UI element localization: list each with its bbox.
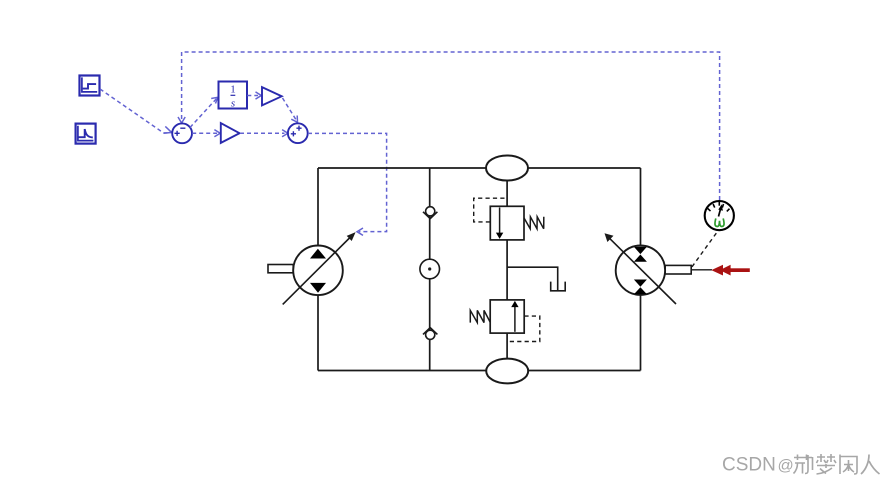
relief valve RV1 (top): [474, 198, 544, 240]
wire: step to sum1: [100, 89, 172, 133]
RV2 spring: [470, 310, 490, 322]
wire: bottom line: [318, 370, 641, 372]
tank T1: [551, 282, 566, 291]
svg-text:CSDN: CSDN: [722, 455, 776, 476]
wire: right branch: [640, 168, 642, 371]
svg-text:1: 1: [230, 84, 236, 96]
svg-text:s: s: [231, 98, 235, 110]
svg-text:@: @: [778, 458, 794, 475]
watermark glyph: xian: [840, 455, 857, 475]
gain block K1: [262, 87, 282, 105]
integrator block 1/s: [219, 82, 248, 110]
wire: relief valve branch: [506, 180, 508, 360]
node: top port ellipse: [486, 156, 528, 181]
gauge needle: [719, 208, 721, 217]
motor flow triangles: [634, 247, 647, 254]
tachometer W1: [705, 201, 734, 230]
pump P1 (variable displacement): [268, 232, 356, 304]
wire: junction to tank: [507, 267, 558, 290]
motor shaft: [665, 265, 691, 274]
sum junction 2: [288, 123, 308, 143]
sum junction 1: [172, 123, 192, 143]
wire: gain1 to sum2: [283, 98, 298, 122]
node: bottom port ellipse: [486, 359, 528, 384]
RV1 pilot line: [474, 198, 506, 222]
motor M1 (variable displacement): [605, 233, 692, 304]
wire: sum1 to integrator: [190, 97, 218, 127]
wire: motor shaft stub: [691, 269, 712, 271]
label: omega: [715, 218, 724, 226]
watermark glyph: ren: [861, 455, 880, 475]
watermark glyph: chu: [817, 454, 837, 474]
wire: sum1 to gain2: [192, 130, 220, 137]
RV2 flow arrow: [514, 307, 516, 332]
gauge tick marks: [708, 201, 730, 211]
pump variable-displacement arrow: [283, 237, 351, 304]
label: 1/s: [231, 94, 236, 96]
RV1 spring: [524, 217, 544, 229]
wire: gain2 to sum2: [240, 130, 288, 137]
red torque input arrow: [711, 265, 750, 276]
RV2 pilot line: [508, 316, 540, 341]
step source block S1: [80, 76, 100, 96]
hydraulic circuit main lines: [318, 168, 641, 371]
check valve CV2 (bottom): [423, 328, 437, 340]
relief valve RV2 (bottom): [470, 300, 540, 342]
gain block K2: [221, 123, 240, 143]
wire: speed sensor link (dashed): [692, 232, 718, 267]
watermark glyph: jing: [794, 455, 813, 474]
ramp source block S2: [76, 124, 96, 144]
pump shaft: [268, 265, 293, 273]
wire: left branch: [317, 168, 319, 371]
pump flow triangles: [310, 249, 326, 259]
wire: check valve branch: [429, 168, 431, 371]
RV1 flow arrow: [499, 208, 501, 234]
motor variable-displacement arrow: [608, 237, 676, 304]
wire: tachometer feedback to sum1: [178, 52, 720, 200]
check valve CV1 (top): [423, 207, 437, 219]
flow control orifice O1: [420, 259, 440, 279]
wire: top line: [318, 167, 641, 169]
wire: sum2 to pump displacement control: [308, 133, 387, 235]
wire: integrator to gain1: [247, 92, 261, 99]
